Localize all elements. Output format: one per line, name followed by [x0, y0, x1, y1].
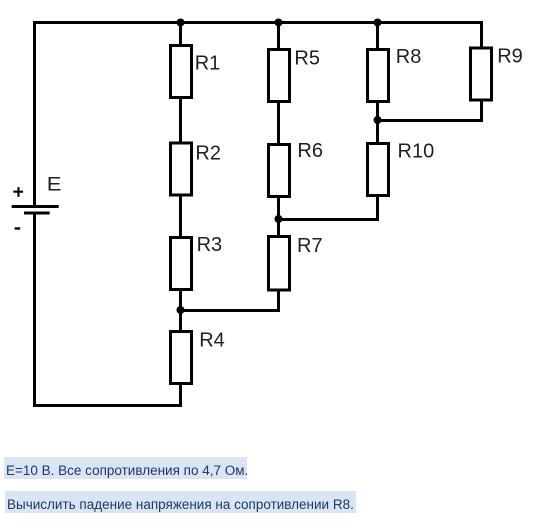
wire: R4 bottom drop to bottom bus	[179, 385, 182, 407]
node A: junction below R3 joining R7 branch and R4	[177, 306, 185, 314]
svg-text:R7: R7	[297, 235, 323, 257]
resistor R3 body	[171, 238, 192, 290]
resistor R8 body	[368, 50, 389, 102]
resistor R1 body	[171, 46, 192, 98]
wire: top bus to R5 top	[277, 24, 280, 49]
svg-text:E: E	[47, 175, 62, 196]
battery + sign	[13, 187, 23, 197]
node: junction on top bus above R8	[374, 19, 382, 27]
wire: R9 bottom down to node B link	[480, 100, 483, 122]
node: junction on top bus above R1	[177, 19, 185, 27]
wire: R10 bottom down to node C link	[376, 196, 379, 221]
svg-text:R4: R4	[199, 330, 225, 352]
problem text line 1	[4, 457, 247, 479]
node B: junction below R8 joining R9 and R10	[374, 116, 382, 124]
battery E long plate (+)	[12, 205, 59, 208]
wire: left vertical from top bus down to battery + plate	[33, 21, 36, 205]
resistor R7 body	[269, 237, 290, 291]
svg-text:R6: R6	[297, 140, 323, 162]
wire: R1 bottom to R2 top	[179, 98, 182, 143]
wire: R2 bottom to R3 top	[179, 195, 182, 237]
resistor R9 body	[471, 48, 492, 100]
resistor R5 body	[269, 50, 290, 102]
battery - sign	[15, 227, 21, 229]
wire: top bus right end down to R9 top	[480, 21, 483, 47]
svg-text:R9: R9	[497, 45, 523, 67]
wire: bottom bus from battery to R4	[33, 404, 182, 407]
problem text line 2	[5, 491, 356, 513]
wire: horizontal link node B (below R8) to R9 branch	[376, 119, 483, 122]
wire: horizontal link node A (below R3) to R7 branch	[179, 309, 280, 312]
resistor R10 body	[368, 144, 389, 196]
node C: junction below R6 joining R10 branch and R7	[275, 215, 283, 223]
wire: R3 bottom to R4 top	[179, 290, 182, 331]
node: junction on top bus above R5	[275, 19, 283, 27]
wire: R8 bottom to R10 top (through node B)	[376, 102, 379, 143]
resistor R4 body	[171, 332, 192, 384]
wire: horizontal link node C (below R6) to R10 branch	[277, 218, 379, 221]
wire: top bus to R1 top	[179, 24, 182, 45]
wire: R7 bottom down to node A link	[277, 291, 280, 312]
svg-text:R1: R1	[195, 53, 221, 75]
battery E short plate (-)	[24, 212, 50, 215]
svg-text:R8: R8	[396, 46, 422, 68]
svg-text:R5: R5	[294, 47, 320, 69]
wire: top bus to R8 top	[376, 24, 379, 49]
resistor R2 body	[171, 143, 192, 195]
svg-text:R3: R3	[197, 234, 223, 256]
wire: top bus from battery + to R9 branch	[33, 21, 483, 24]
wire: R5 bottom to R6 top	[277, 102, 280, 144]
wire: left vertical from battery - plate down to bottom bus	[33, 214, 36, 407]
svg-text:R10: R10	[398, 141, 435, 163]
svg-text:R2: R2	[195, 143, 221, 165]
wire: R6 bottom to R7 top	[277, 196, 280, 236]
resistor R6 body	[269, 145, 290, 197]
